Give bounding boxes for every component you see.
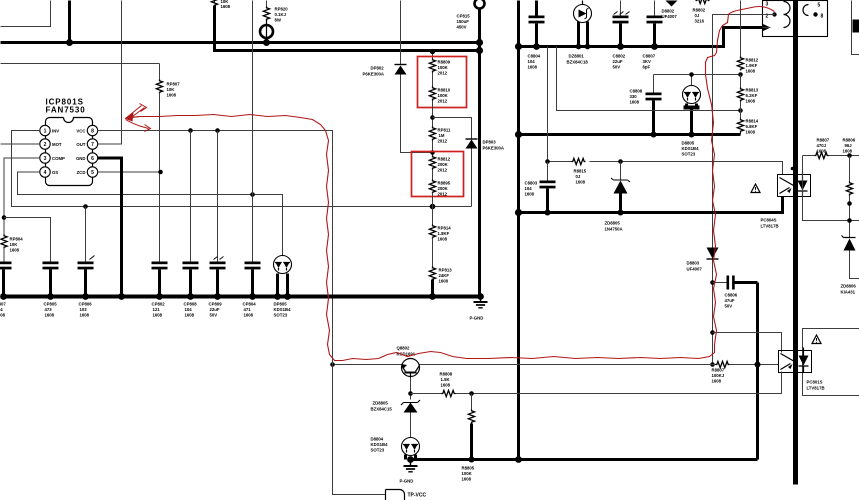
svg-text:1608: 1608 bbox=[746, 99, 756, 104]
svg-text:R8815: R8815 bbox=[574, 169, 587, 174]
svg-text:471: 471 bbox=[244, 307, 252, 312]
wire between RP814 RP813 bbox=[432, 238, 434, 268]
wire thick bus y=212 bbox=[515, 197, 783, 217]
resistor RP807 10K 1608 bbox=[156, 64, 180, 262]
svg-text:GND: GND bbox=[76, 156, 86, 161]
svg-text:R8810: R8810 bbox=[438, 88, 451, 93]
node VCC aux line y=74 bbox=[654, 74, 741, 76]
warning triangle near PC804S bbox=[751, 184, 760, 193]
junction on rail at x=69 bbox=[66, 39, 73, 46]
svg-text:BZX84C18: BZX84C18 bbox=[567, 60, 589, 65]
svg-text:47uF: 47uF bbox=[725, 298, 735, 303]
TVS dual zener D8806 bbox=[683, 72, 701, 137]
resistor 10K 1608 top bbox=[211, 0, 230, 9]
svg-text:50V: 50V bbox=[210, 313, 218, 318]
svg-text:1608: 1608 bbox=[576, 180, 586, 185]
svg-text:SOT23: SOT23 bbox=[682, 152, 696, 157]
capacitor C8807 3KV 6pF bbox=[643, 1, 663, 70]
label D8805 KDS1B4 SOT23 bbox=[682, 141, 700, 157]
node DP803 branch bbox=[430, 101, 471, 140]
capacitor CP804 471 1608 bbox=[243, 262, 261, 318]
svg-text:1608: 1608 bbox=[843, 149, 853, 154]
capacitor CP815 150uF 450V bbox=[457, 0, 485, 30]
svg-text:5: 5 bbox=[818, 3, 821, 9]
capacitor C8804 104 1608 bbox=[528, 1, 545, 70]
svg-text:1608: 1608 bbox=[185, 313, 195, 318]
svg-text:100K: 100K bbox=[438, 93, 449, 98]
capacitor CP809 22uF 50V bbox=[209, 257, 226, 318]
svg-text:D8804: D8804 bbox=[371, 437, 384, 442]
svg-text:330: 330 bbox=[630, 94, 638, 99]
capacitor CP806 103 1608 bbox=[78, 256, 95, 318]
svg-text:1N4750A: 1N4750A bbox=[605, 227, 623, 232]
capacitor C8808 330 1608 bbox=[630, 75, 662, 138]
svg-text:1608: 1608 bbox=[630, 100, 640, 105]
svg-text:8: 8 bbox=[91, 129, 94, 135]
svg-text:150uF: 150uF bbox=[457, 19, 470, 24]
junction RP820 on rail bbox=[263, 39, 270, 46]
svg-text:104: 104 bbox=[0, 307, 3, 312]
red highlight box R8812 R8895 bbox=[412, 152, 464, 197]
pin 8 VCC bbox=[76, 125, 97, 135]
pin 5 ZCD bbox=[77, 167, 98, 177]
wire right feedback box bbox=[803, 156, 859, 223]
svg-text:D8802: D8802 bbox=[662, 9, 675, 14]
svg-text:7: 7 bbox=[91, 142, 94, 148]
wire pin5 ZCD bbox=[98, 170, 163, 175]
svg-text:1608: 1608 bbox=[712, 379, 722, 384]
wire main top rail bbox=[1, 41, 480, 44]
svg-text:DZ8801: DZ8801 bbox=[569, 54, 585, 59]
arrow into transformer pin1 bbox=[762, 24, 771, 32]
svg-text:1608: 1608 bbox=[746, 69, 756, 74]
svg-text:2012: 2012 bbox=[438, 139, 448, 144]
wire vertical x=85 bbox=[85, 207, 87, 262]
dual diode DP805 KDS1B4 SOT23 bbox=[274, 256, 292, 318]
svg-text:DP805: DP805 bbox=[274, 302, 288, 307]
wire opto transistor top line y=332 bbox=[710, 330, 781, 352]
svg-text:FAN7530: FAN7530 bbox=[46, 106, 86, 115]
junction divider mid bbox=[430, 141, 435, 157]
pin 6 GND bbox=[76, 153, 98, 163]
svg-text:LTV817B: LTV817B bbox=[807, 386, 825, 391]
transformer primary winding bbox=[763, 2, 791, 28]
wire thick vertical x=757 bbox=[756, 283, 759, 460]
wire thick ground bus y=459 bbox=[411, 456, 758, 463]
opto-coupler PC801S LTV817B bbox=[779, 348, 825, 391]
svg-text:2012: 2012 bbox=[438, 71, 448, 76]
svg-text:2012: 2012 bbox=[438, 99, 448, 104]
svg-text:1608: 1608 bbox=[45, 313, 55, 318]
resistor R8810 100K 2012 bbox=[429, 87, 450, 104]
wire between R8812 R8895 bbox=[432, 170, 434, 181]
svg-text:96J: 96J bbox=[845, 143, 853, 148]
pin 2 MOT bbox=[40, 139, 62, 149]
label DP803 P6KE300A bbox=[483, 140, 505, 151]
wire pin3 COMP branch bbox=[2, 158, 51, 262]
wire pin2 MOT bbox=[1, 143, 41, 145]
diode D8803 UF4007 bbox=[687, 248, 719, 272]
svg-text:470J: 470J bbox=[817, 143, 827, 148]
svg-text:INV: INV bbox=[52, 129, 59, 134]
svg-text:DP803: DP803 bbox=[483, 140, 497, 145]
wire pin8 VCC line bbox=[98, 131, 333, 365]
svg-text:R8802: R8802 bbox=[693, 8, 706, 13]
node right edge component box bbox=[852, 1, 859, 55]
resistor R8812 1.9KF 1608 bbox=[737, 1, 758, 77]
resistor R8807 470J 1608 bbox=[803, 138, 859, 159]
svg-text:P6KE300A: P6KE300A bbox=[483, 146, 505, 151]
svg-text:1608: 1608 bbox=[438, 237, 448, 242]
svg-text:KDS1B4: KDS1B4 bbox=[682, 146, 700, 151]
svg-text:CP808: CP808 bbox=[184, 302, 198, 307]
capacitor CP808 104 1608 bbox=[183, 262, 199, 318]
svg-text:450V: 450V bbox=[457, 25, 467, 30]
pin 3 COMP bbox=[40, 153, 65, 163]
svg-text:R8807: R8807 bbox=[817, 138, 830, 143]
svg-text:UF4007: UF4007 bbox=[687, 267, 703, 272]
svg-text:5: 5 bbox=[91, 170, 94, 176]
svg-text:PC804S: PC804S bbox=[761, 218, 777, 223]
junction rail x=518 bbox=[515, 43, 522, 50]
svg-text:ZD8805: ZD8805 bbox=[373, 401, 389, 406]
svg-text:R8806: R8806 bbox=[843, 138, 856, 143]
svg-text:SOT23: SOT23 bbox=[274, 313, 288, 318]
svg-text:1608: 1608 bbox=[441, 383, 451, 388]
wire base node Q8802 bbox=[408, 378, 413, 400]
svg-text:3KV: 3KV bbox=[643, 59, 651, 64]
wire long vertical x=252 bbox=[252, 1, 254, 262]
svg-text:PC801S: PC801S bbox=[807, 380, 823, 385]
wire pin4 OS line bbox=[18, 172, 283, 256]
svg-text:22uF: 22uF bbox=[210, 307, 220, 312]
svg-text:1608: 1608 bbox=[221, 4, 231, 9]
svg-text:104: 104 bbox=[528, 59, 536, 64]
red annotation arrowhead bbox=[125, 104, 151, 132]
svg-text:10K: 10K bbox=[10, 242, 19, 247]
pin 4 OS bbox=[40, 167, 59, 177]
wire transformer pin2 feed bbox=[713, 15, 775, 365]
resistor R8806 96J 1608 bbox=[843, 138, 856, 238]
resistor RP813 24KF 1608 bbox=[429, 267, 452, 297]
svg-text:4: 4 bbox=[44, 170, 47, 176]
ground P-GND at Q8802 bbox=[400, 462, 418, 484]
svg-text:200K: 200K bbox=[438, 162, 449, 167]
svg-text:50V: 50V bbox=[613, 65, 621, 70]
svg-text:D8805: D8805 bbox=[682, 141, 695, 146]
wire between R8809 R8810 bbox=[432, 73, 434, 88]
svg-text:1M: 1M bbox=[439, 133, 445, 138]
svg-text:1608: 1608 bbox=[244, 313, 254, 318]
junction x=479 rails bbox=[476, 39, 483, 54]
svg-text:RP804: RP804 bbox=[10, 237, 24, 242]
svg-text:1608: 1608 bbox=[10, 248, 20, 253]
svg-text:1608: 1608 bbox=[746, 130, 756, 135]
transformer T801 box bbox=[763, 1, 828, 37]
pin 1 INV bbox=[40, 125, 59, 135]
pin 7 OUT bbox=[76, 139, 97, 149]
junction feedback line bbox=[83, 204, 435, 210]
wire top-left box corner bbox=[1, 1, 51, 27]
transistor Q8802 KSD1691 bbox=[397, 346, 420, 378]
svg-text:SOT23: SOT23 bbox=[371, 448, 385, 453]
svg-text:TP-VCC: TP-VCC bbox=[408, 493, 427, 499]
wire thick bus y=134 bbox=[515, 131, 741, 138]
svg-text:100KJ: 100KJ bbox=[712, 373, 725, 378]
svg-text:22uF: 22uF bbox=[613, 59, 623, 64]
svg-text:Q8802: Q8802 bbox=[397, 346, 411, 351]
svg-text:1608: 1608 bbox=[0, 313, 6, 318]
zener ZD8806 KIA431 bbox=[841, 236, 859, 295]
svg-text:1608: 1608 bbox=[525, 192, 535, 197]
svg-text:6.2KF: 6.2KF bbox=[746, 93, 758, 98]
wire thick vertical x=518 bbox=[517, 1, 520, 460]
svg-text:1608: 1608 bbox=[817, 149, 827, 154]
diode D8802 UF4007 bbox=[662, 1, 678, 20]
zener DZ8801 BZX84C18 bbox=[567, 1, 592, 65]
ground P-GND main bbox=[470, 298, 488, 321]
fuse circle of RP820 bbox=[260, 21, 273, 43]
svg-text:200K: 200K bbox=[438, 186, 449, 191]
svg-text:8W: 8W bbox=[275, 18, 282, 23]
wire thick vertical x=479 bbox=[478, 8, 481, 297]
svg-text:C8806: C8806 bbox=[725, 293, 738, 298]
svg-text:D8803: D8803 bbox=[687, 261, 700, 266]
svg-text:1.8KF: 1.8KF bbox=[438, 231, 450, 236]
node DP802 line bbox=[401, 1, 433, 153]
red highlight box R8809 R8810 bbox=[418, 57, 467, 108]
svg-text:0J: 0J bbox=[695, 13, 700, 18]
svg-text:6: 6 bbox=[91, 156, 94, 162]
svg-text:1: 1 bbox=[44, 129, 47, 135]
wire thick main vertical bus x=795 bbox=[793, 1, 798, 485]
red annotation trace bbox=[128, 7, 775, 361]
svg-text:104: 104 bbox=[525, 186, 533, 191]
resistor R8805 100K 1608 bbox=[462, 394, 475, 482]
svg-text:3: 3 bbox=[44, 156, 47, 162]
junction VCC caps bbox=[188, 128, 220, 133]
svg-text:C8808: C8808 bbox=[630, 89, 643, 94]
svg-text:1.5K: 1.5K bbox=[441, 377, 451, 382]
svg-text:0.1KJ: 0.1KJ bbox=[275, 12, 287, 17]
wire pin6 GND thick bbox=[98, 158, 122, 297]
wire vertical x=190 bbox=[190, 131, 192, 262]
svg-text:OUT: OUT bbox=[76, 142, 85, 147]
svg-text:24KF: 24KF bbox=[439, 273, 450, 278]
svg-text:CP802: CP802 bbox=[152, 302, 166, 307]
svg-text:KIA431: KIA431 bbox=[841, 290, 856, 295]
svg-text:ZD8806: ZD8806 bbox=[841, 284, 857, 289]
svg-text:BZX84C15: BZX84C15 bbox=[371, 407, 393, 412]
svg-text:1608: 1608 bbox=[462, 477, 472, 482]
svg-text:6.8KF: 6.8KF bbox=[746, 124, 758, 129]
svg-text:R8809: R8809 bbox=[438, 60, 451, 65]
junction dots ground bus bbox=[0, 293, 484, 300]
svg-text:104: 104 bbox=[185, 307, 193, 312]
junction x=712 cap node bbox=[710, 280, 715, 285]
svg-text:1608: 1608 bbox=[80, 313, 90, 318]
diode DP803 P6KE300A symbol bbox=[466, 139, 478, 207]
capacitor C8803 104 1608 bbox=[525, 162, 556, 216]
resistor R8812 200K 2012 bbox=[429, 156, 450, 173]
resistor R8808 1.5K 1608 bbox=[411, 372, 474, 397]
svg-text:CP805: CP805 bbox=[44, 302, 58, 307]
wire to feedback node bbox=[432, 193, 434, 226]
svg-text:1608: 1608 bbox=[528, 65, 538, 70]
svg-text:C807: C807 bbox=[0, 302, 6, 307]
svg-text:2: 2 bbox=[44, 142, 47, 148]
black component block top right bbox=[853, 20, 859, 33]
svg-text:100K: 100K bbox=[438, 65, 449, 70]
svg-text:121: 121 bbox=[153, 307, 161, 312]
wire thick vertical top-left bbox=[68, 1, 71, 43]
svg-text:C8803: C8803 bbox=[525, 181, 538, 186]
svg-text:CP804: CP804 bbox=[243, 302, 257, 307]
zener ZD8805 BZX84C15 bbox=[371, 400, 421, 438]
wire opto transistor bottom line y=393 bbox=[472, 372, 782, 394]
secondary control box bottom right bbox=[803, 329, 859, 396]
capacitor CP805 473 1608 bbox=[43, 262, 59, 318]
svg-text:10K: 10K bbox=[167, 87, 176, 92]
wire divider chain top bbox=[430, 49, 435, 60]
resistor R8802 0J 3216 bbox=[693, 0, 710, 24]
wire thick ground bus y=296 bbox=[1, 295, 481, 299]
wire opto drive line y=161 bbox=[545, 47, 782, 175]
svg-text:103: 103 bbox=[80, 307, 88, 312]
svg-text:P-GND: P-GND bbox=[400, 479, 414, 484]
wire vertical x=217 bbox=[217, 131, 219, 262]
svg-text:C8802: C8802 bbox=[613, 54, 626, 59]
svg-text:R8807: R8807 bbox=[712, 368, 725, 373]
svg-text:RP813: RP813 bbox=[439, 268, 453, 273]
svg-text:50V: 50V bbox=[725, 304, 733, 309]
svg-text:100K: 100K bbox=[462, 471, 473, 476]
svg-text:ZCD: ZCD bbox=[77, 170, 86, 175]
wire aux line y=110 bbox=[557, 47, 741, 111]
resistor RP811 1M 2012 bbox=[429, 127, 451, 144]
capacitor C8802 22uF 50V bbox=[613, 1, 630, 70]
svg-text:C8804: C8804 bbox=[528, 54, 541, 59]
svg-text:MOT: MOT bbox=[52, 142, 62, 147]
resistor R8814 6.8KF 1608 bbox=[737, 102, 758, 135]
svg-text:R8808: R8808 bbox=[440, 372, 453, 377]
zener ZD8805 1N4750A bbox=[605, 159, 631, 231]
svg-text:C8807: C8807 bbox=[643, 54, 656, 59]
capacitor C8806 47uF 50V bbox=[713, 276, 758, 309]
svg-text:DP802: DP802 bbox=[371, 66, 385, 71]
svg-text:R8814: R8814 bbox=[746, 119, 759, 124]
resistor RP804 10K 1608 bbox=[1, 235, 23, 262]
svg-text:RP807: RP807 bbox=[167, 82, 181, 87]
svg-text:COMP: COMP bbox=[52, 156, 65, 161]
resistor R8807 100KJ 1608 bbox=[710, 361, 778, 383]
svg-text:8: 8 bbox=[821, 14, 824, 20]
svg-text:RP820: RP820 bbox=[275, 7, 289, 12]
svg-text:RP814: RP814 bbox=[438, 226, 452, 231]
capacitor CP802 121 1608 bbox=[152, 262, 168, 318]
testpoint TP-VCC bbox=[386, 490, 427, 500]
svg-text:R8812: R8812 bbox=[746, 58, 759, 63]
svg-text:1.9KF: 1.9KF bbox=[746, 63, 758, 68]
svg-text:473: 473 bbox=[45, 307, 53, 312]
svg-text:0J: 0J bbox=[576, 174, 581, 179]
svg-text:R8813: R8813 bbox=[746, 88, 759, 93]
transformer secondary winding bbox=[803, 3, 824, 20]
wire thick lead x=214 and second rail bbox=[215, 6, 480, 51]
svg-text:R8805: R8805 bbox=[462, 466, 475, 471]
wire thin rail to RP807 bbox=[1, 63, 160, 65]
label resistor R8815 0J 1608 bbox=[574, 169, 587, 185]
resistor RP820 0.1KJ 8W bbox=[263, 1, 288, 23]
svg-text:6pF: 6pF bbox=[643, 65, 651, 70]
capacitor C807 104 1608 bbox=[0, 262, 12, 318]
svg-text:R8895: R8895 bbox=[438, 181, 451, 186]
svg-text:LTV817B: LTV817B bbox=[761, 224, 779, 229]
resistor R8813 6.2KF 1608 bbox=[737, 75, 758, 113]
op-amp controller ICP801S FAN7530 body bbox=[46, 98, 93, 186]
svg-text:CP806: CP806 bbox=[79, 302, 93, 307]
svg-text:3216: 3216 bbox=[695, 19, 705, 24]
svg-text:ZD8805: ZD8805 bbox=[605, 221, 621, 226]
svg-text:KDS1B4: KDS1B4 bbox=[274, 307, 292, 312]
svg-text:UF4007: UF4007 bbox=[662, 14, 678, 19]
svg-text:P6KE300A: P6KE300A bbox=[363, 72, 385, 77]
resistor RP814 1.8KF 1608 bbox=[429, 225, 451, 242]
wire VCC line y=364 bbox=[330, 362, 712, 367]
wire pin7 OUT drive line bbox=[98, 1, 122, 145]
svg-text:P-GND: P-GND bbox=[470, 316, 484, 321]
diode DP802 P6KE300A bbox=[363, 65, 407, 77]
resistor R8895 200K 2012 bbox=[429, 180, 450, 197]
svg-text:3: 3 bbox=[766, 2, 769, 8]
svg-text:2012: 2012 bbox=[438, 168, 448, 173]
opto-coupler PC804S LTV817B bbox=[761, 167, 811, 229]
svg-text:1608: 1608 bbox=[439, 279, 449, 284]
wire pin1 INV feedback line bbox=[12, 131, 472, 207]
wire VCC rail right section bbox=[519, 28, 763, 47]
svg-text:1608: 1608 bbox=[167, 93, 177, 98]
svg-text:1608: 1608 bbox=[153, 313, 163, 318]
svg-text:KDS1B4: KDS1B4 bbox=[371, 442, 389, 447]
wire VCC branch to TP-VCC bbox=[333, 365, 386, 495]
svg-text:VCC: VCC bbox=[76, 129, 85, 134]
svg-text:R8812: R8812 bbox=[438, 157, 451, 162]
dual diode D8804 KDS1B4 SOT23 bbox=[371, 437, 420, 463]
svg-text:CP809: CP809 bbox=[209, 302, 223, 307]
resistor R8809 100K 2012 bbox=[429, 59, 450, 76]
svg-text:CP815: CP815 bbox=[457, 14, 471, 19]
svg-text:RP811: RP811 bbox=[438, 128, 452, 133]
warning triangle in control box bbox=[812, 335, 821, 344]
svg-text:OS: OS bbox=[52, 170, 58, 175]
